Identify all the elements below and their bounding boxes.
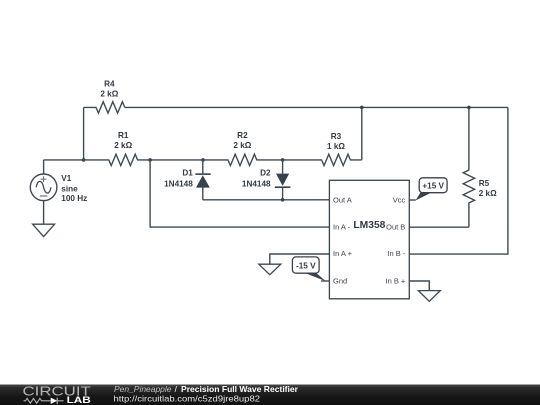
node: R1/R2/feedback junction (148, 158, 152, 162)
wire: vertical into R3 right end (361, 107, 363, 159)
wire: Out B to R5 bottom (409, 226, 469, 228)
node: V1/R4/R1 junction (82, 158, 86, 162)
svg-text:V1: V1 (61, 174, 71, 183)
svg-text:100 Hz: 100 Hz (61, 194, 87, 203)
wire: Gnd pin stub (321, 280, 329, 282)
diode D2 (282, 160, 284, 200)
svg-text:1N4148: 1N4148 (164, 180, 193, 189)
node: D2 bottom junction (281, 198, 285, 202)
resistor R4 (84, 102, 125, 113)
wire: Vcc stub (409, 199, 416, 201)
svg-text:R3: R3 (331, 132, 342, 141)
svg-text:-15 V: -15 V (296, 261, 316, 270)
wire: right vertical down to In B- (409, 107, 508, 254)
svg-text:R5: R5 (479, 179, 490, 188)
svg-text:In A -: In A - (333, 223, 351, 232)
resistor R2 (203, 154, 283, 165)
voltage source V1 (43, 160, 45, 174)
node: D2 top junction (281, 158, 285, 162)
wire: feedback to In A- (150, 160, 329, 227)
svg-text:In B -: In B - (387, 249, 405, 258)
svg-text:LAB: LAB (67, 395, 91, 405)
diode D1 (202, 160, 204, 200)
wire: R1 to D1 (150, 159, 203, 161)
net flag +15 V (416, 192, 433, 201)
svg-text:In A +: In A + (333, 249, 353, 258)
node: D1 top junction (201, 158, 205, 162)
svg-text:Pen_Pineapple: Pen_Pineapple (114, 384, 172, 394)
svg-text:Gnd: Gnd (333, 276, 347, 285)
ground (V1) (33, 224, 55, 236)
wire: top net from R4 to right side (125, 106, 508, 108)
wire: left vertical from R4 down to main row (83, 107, 85, 159)
svg-text:Out A: Out A (333, 195, 352, 204)
svg-text:2 kΩ: 2 kΩ (114, 141, 132, 150)
svg-text:Vcc: Vcc (393, 195, 406, 204)
svg-text:Out B: Out B (386, 223, 405, 232)
svg-text:http://circuitlab.com/c5zd9jre: http://circuitlab.com/c5zd9jre8up82 (114, 394, 261, 404)
ground (In B+) (418, 291, 440, 302)
wire: main row y=160 (44, 159, 84, 161)
ground (In A+) (259, 264, 281, 275)
svg-text:2 kΩ: 2 kΩ (233, 141, 251, 150)
wire: In A+ to ground (270, 254, 330, 264)
node: top wire / R5 branch (467, 106, 471, 110)
svg-text:R1: R1 (118, 131, 129, 140)
wire: In B+ to ground (409, 281, 429, 291)
resistor R1 (84, 154, 151, 165)
svg-text:+15 V: +15 V (422, 181, 444, 190)
svg-text:2 kΩ: 2 kΩ (479, 189, 497, 198)
svg-text:R2: R2 (237, 131, 248, 140)
wire: diode bottoms to Out A (203, 199, 330, 201)
svg-text:sine: sine (61, 184, 78, 193)
svg-text:2 kΩ: 2 kΩ (100, 89, 118, 98)
svg-text:In B +: In B + (385, 276, 405, 285)
svg-text:LM358: LM358 (353, 220, 385, 231)
svg-text:D2: D2 (260, 169, 271, 178)
resistor R3 (283, 154, 362, 165)
resistor R5 (463, 107, 474, 227)
op-amp U1 LM358 body (329, 180, 409, 298)
net flag -15 V (304, 272, 326, 281)
svg-text:1N4148: 1N4148 (242, 180, 271, 189)
svg-text:1 kΩ: 1 kΩ (327, 142, 345, 151)
svg-text:Precision Full Wave Rectifier: Precision Full Wave Rectifier (181, 384, 299, 394)
svg-text:D1: D1 (182, 169, 193, 178)
svg-text:R4: R4 (104, 80, 115, 89)
node: top wire / R3 branch (360, 106, 364, 110)
